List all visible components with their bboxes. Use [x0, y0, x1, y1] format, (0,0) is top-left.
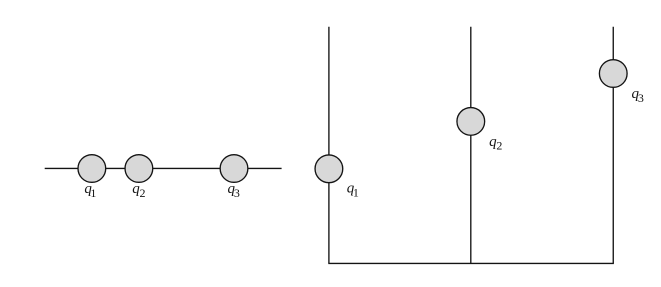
wire: right diagram bottom horizontal wire: [328, 262, 614, 264]
wire: right diagram vertical wire 1: [328, 27, 330, 264]
svg-text:2: 2: [496, 138, 502, 152]
wire: left diagram horizontal wire: [45, 167, 282, 169]
svg-text:2: 2: [140, 186, 146, 200]
wire: right diagram vertical wire 3: [612, 27, 614, 264]
svg-text:1: 1: [90, 186, 96, 200]
charge q2 (left diagram): [125, 155, 153, 183]
svg-text:1: 1: [353, 185, 359, 199]
charge q3 (left diagram): [220, 155, 248, 183]
charge q3 (right diagram): [599, 60, 627, 88]
wire: right diagram vertical wire 2: [470, 27, 472, 264]
charge q2 (right diagram): [457, 108, 485, 136]
charge q1 (right diagram): [315, 155, 343, 183]
charge q1 (left diagram): [78, 155, 106, 183]
svg-text:3: 3: [234, 186, 240, 200]
svg-text:3: 3: [638, 91, 644, 105]
